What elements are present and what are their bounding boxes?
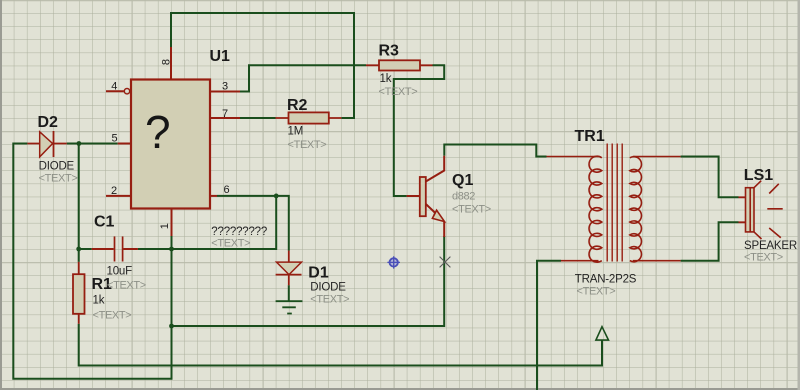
wire R3 right to Q1 base (394, 65, 444, 196)
pin 2 stub (106, 195, 131, 197)
junction C1 left / R1 top (76, 247, 81, 252)
wire C1 left (79, 248, 92, 250)
svg-text:5: 5 (112, 133, 118, 145)
window edge bottom (0, 388, 800, 390)
pin 7 stub (210, 117, 240, 119)
svg-text:<TEXT>: <TEXT> (107, 280, 146, 292)
svg-text:8: 8 (160, 59, 172, 65)
svg-text:LS1: LS1 (744, 167, 773, 184)
svg-text:1: 1 (159, 223, 171, 229)
svg-text:<TEXT>: <TEXT> (93, 309, 132, 321)
svg-text:10uF: 10uF (107, 265, 133, 277)
wire C1 right to pin6 riser (138, 196, 276, 249)
wire TR1 secondary bottom to LS1 (681, 222, 739, 260)
diode D1 (276, 251, 302, 286)
svg-text:U1: U1 (210, 48, 231, 65)
wire R1 bottom rail to power (79, 324, 602, 366)
junction pin6 / D1 branch (274, 194, 279, 199)
capacitor C1 (92, 237, 138, 262)
svg-text:d882: d882 (452, 191, 475, 203)
resistor R2 (276, 112, 342, 123)
origin marker cross (440, 257, 451, 268)
junction node A (D2/R1/pin5) (77, 141, 82, 146)
svg-text:D1: D1 (308, 264, 329, 281)
wire D2 anode down left rail to bottom and up to pin1 (13, 144, 171, 379)
window edge left (0, 0, 2, 390)
svg-text:<TEXT>: <TEXT> (577, 286, 616, 298)
svg-text:DIODE: DIODE (310, 282, 346, 294)
transformer TR1 (547, 144, 681, 263)
resistor R1 (73, 262, 85, 324)
svg-text:<TEXT>: <TEXT> (211, 238, 250, 250)
TR1 core (607, 144, 622, 262)
svg-text:1M: 1M (288, 126, 304, 138)
wire pin7 to R2 left (240, 117, 276, 119)
svg-text:<TEXT>: <TEXT> (744, 252, 783, 264)
svg-text:<TEXT>: <TEXT> (452, 204, 491, 216)
svg-text:D2: D2 (38, 114, 59, 131)
svg-text:1k: 1k (93, 295, 105, 307)
svg-text:<TEXT>: <TEXT> (288, 139, 327, 151)
wire TR1 primary bottom off-page (537, 261, 561, 390)
wire pin6 to D1 anode (217, 196, 289, 251)
svg-text:SPEAKER: SPEAKER (744, 240, 797, 252)
svg-text:?: ? (145, 106, 171, 158)
svg-text:<TEXT>: <TEXT> (379, 86, 418, 98)
wire pin8 to top rail to R2 right (171, 13, 354, 118)
pin 8 stub (170, 47, 172, 80)
svg-text:<TEXT>: <TEXT> (39, 172, 78, 184)
speaker LS1 (739, 181, 783, 239)
svg-text:TR1: TR1 (575, 128, 605, 145)
svg-text:?????????: ????????? (211, 226, 267, 238)
wire D2 cathode to pin5 (67, 143, 118, 145)
svg-text:7: 7 (222, 108, 228, 120)
ground symbol under D1 (276, 301, 303, 313)
svg-text:Q1: Q1 (452, 172, 473, 189)
wire node A down to R1 top (78, 144, 80, 262)
svg-text:C1: C1 (94, 214, 115, 231)
svg-text:6: 6 (224, 184, 230, 196)
svg-text:3: 3 (222, 81, 228, 93)
origin marker blue (387, 256, 400, 268)
svg-text:R2: R2 (287, 97, 308, 114)
svg-text:DIODE: DIODE (39, 160, 75, 172)
diode D2 (27, 131, 66, 157)
wire Q1 emitter rail (172, 236, 445, 326)
svg-text:2: 2 (111, 185, 117, 197)
pin 6 stub (210, 195, 217, 197)
junction pin1 / C1 wire (169, 247, 174, 252)
pin 4 inversion bubble (124, 89, 129, 94)
svg-text:1k: 1k (380, 73, 392, 85)
transistor Q1 (407, 156, 445, 237)
svg-text:R3: R3 (379, 43, 400, 60)
resistor R3 (366, 60, 433, 70)
svg-text:4: 4 (111, 81, 117, 93)
wire D1 cathode to ground (288, 285, 290, 300)
wire pin3 to R3 left (240, 65, 366, 91)
pin 4 stub (106, 90, 124, 92)
power arrow symbol (596, 327, 609, 340)
TR1 secondary winding (633, 156, 681, 158)
pin 1 stub (171, 209, 173, 237)
pin 5 stub (118, 143, 131, 145)
svg-text:<TEXT>: <TEXT> (310, 294, 349, 306)
svg-text:TRAN-2P2S: TRAN-2P2S (575, 273, 637, 285)
op-amp U1 body (131, 80, 210, 209)
pin 3 stub (210, 91, 240, 93)
TR1 primary winding (547, 156, 599, 158)
junction emitter rail / left vertical (169, 324, 174, 329)
wire TR1 secondary top to LS1 (681, 157, 739, 198)
wire Q1 collector to TR1 primary top (444, 145, 546, 157)
window edge right (798, 0, 800, 390)
